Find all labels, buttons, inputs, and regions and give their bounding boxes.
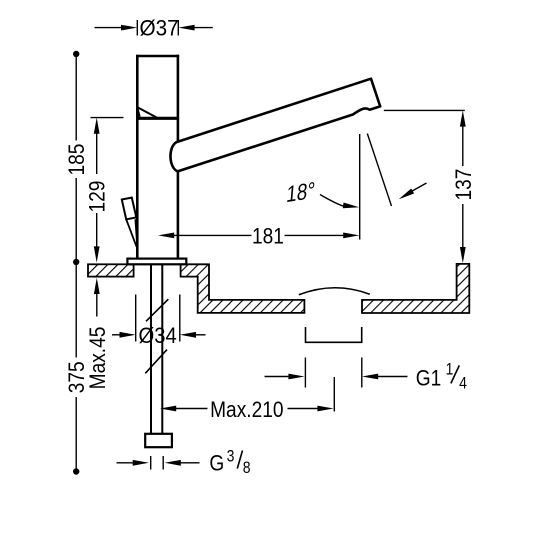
- svg-text:185: 185: [65, 144, 90, 176]
- svg-text:Ø37: Ø37: [140, 15, 179, 41]
- svg-text:Max.45: Max.45: [85, 327, 110, 390]
- svg-text:18°: 18°: [285, 177, 316, 208]
- svg-text:129: 129: [85, 181, 110, 213]
- svg-text:3: 3: [227, 447, 235, 465]
- svg-text:G: G: [209, 451, 224, 476]
- svg-text:4: 4: [459, 374, 467, 392]
- svg-text:Ø34: Ø34: [138, 323, 176, 348]
- svg-text:137: 137: [451, 169, 476, 201]
- svg-text:1: 1: [446, 360, 454, 378]
- svg-text:Max.210: Max.210: [210, 398, 283, 423]
- svg-text:G1: G1: [416, 366, 442, 391]
- svg-text:8: 8: [243, 459, 251, 477]
- svg-text:181: 181: [252, 224, 284, 249]
